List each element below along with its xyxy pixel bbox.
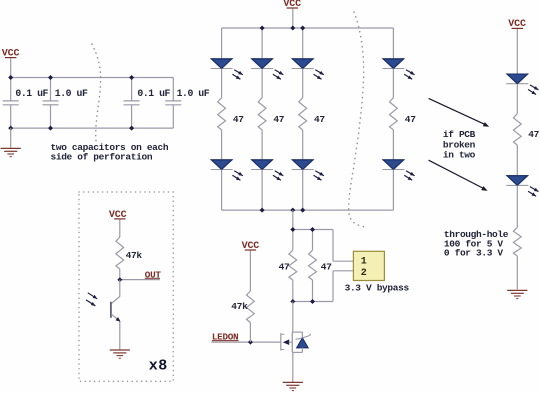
resistor R4 47 [390,98,398,130]
wire capacitor C4 bottom lead [172,105,174,128]
svg-text:0.1 uF: 0.1 uF [137,88,170,99]
note: through-hole resistor value [444,229,509,259]
resistor R3 47 [299,98,307,130]
resistor R5 47 [289,250,297,280]
svg-text:x8: x8 [149,358,168,375]
resistor R6 47 [309,250,317,280]
power flag VCC (LED matrix) [283,0,301,10]
perforation dotted line (matrix) [349,12,367,227]
perforation dotted line (cap bank) [92,44,101,144]
resistor R7 47k [247,291,255,323]
junction resistor-pair bottom right [310,299,315,304]
wire branch 4 bottom [392,170,394,211]
svg-text:47: 47 [321,261,332,272]
value label 47k (R8) [126,250,143,261]
wire LEDON net [211,341,280,343]
LED D10 emission arrows [528,187,538,197]
wire MOSFET source to ground [292,352,294,382]
junction collector node [117,277,122,282]
net label LEDON [212,332,239,343]
wire OUT net [120,279,160,281]
wire matrix top rail [222,27,394,29]
wire capacitor C1 top lead [10,78,12,101]
wire branch 2 upper lead [261,69,263,98]
LED D2B [251,160,273,170]
wire to ground (cap bank) [10,128,12,148]
svg-text:0.1 uF: 0.1 uF [15,88,48,99]
junction on matrix bottom rail [300,208,305,213]
svg-text:47k: 47k [126,250,143,261]
LED D1B emission arrows [232,171,242,181]
LED D4A [382,59,404,69]
net label OUT [145,269,162,280]
svg-text:2: 2 [361,268,367,279]
svg-text:1.0 uF: 1.0 uF [55,88,88,99]
label 3.3 V bypass [345,282,410,293]
wire D10 to R10 [516,185,518,227]
value label 47 (R5) [279,261,290,272]
wire bypass pin2 riser [332,271,334,302]
power flag VCC (capacitor bank) [2,48,20,59]
wire R6 bottom lead [312,280,314,302]
LED D1A emission arrows [232,70,242,80]
wire resistor pair to MOSFET drain [292,302,294,333]
power flag VCC (cell) [109,210,127,221]
wire branch 3 top [302,28,304,59]
MOSFET Q1 gate bar [281,333,284,350]
LED D1A [211,59,233,69]
wire branch 4 top [392,28,394,59]
MOSFET Q1 substrate arrow [283,339,292,345]
power flag VCC (right column) [508,19,526,30]
resistor R10 through-hole [513,227,521,256]
wire capacitor C1 bottom lead [10,105,12,128]
wire branch 2 top [261,28,263,59]
LED D2A [251,59,273,69]
value label 47k (R7) [231,301,248,312]
junction on cap top rail [48,75,53,80]
junction on matrix bottom rail [290,208,295,213]
wire capacitor C4 top lead [172,78,174,101]
value label 1.0 uF (C2) [55,88,88,99]
phototransistor Q2 light arrows [86,293,97,306]
wire R6 top lead [312,230,314,251]
wire branch 2 bottom [261,170,263,211]
value label 0.1 uF (C3) [137,88,170,99]
pin label 2 [361,268,367,279]
phototransistor Q2 collector [111,280,120,304]
LED D4B [382,160,404,170]
junction on matrix top rail [300,26,305,31]
wire R8 to collector node [119,269,121,280]
wire VCC to LED D9 [516,29,518,74]
MOSFET Q1 channel bar [291,332,293,352]
svg-text:VCC: VCC [109,210,127,221]
wire VCC to top rail [10,58,12,77]
svg-text:3.3 V bypass: 3.3 V bypass [345,282,410,293]
annotation arrow lower [429,160,488,191]
junction resistor-pair top left [290,227,295,232]
connector JP1 3.3V bypass (yellow box) [353,251,384,280]
wire R9 to LED D10 [516,145,518,176]
capacitor C1 [3,101,19,105]
value label 0.1 uF (C1) [15,88,48,99]
ground (cell) [110,350,130,358]
value label 47 (R3) [314,114,325,125]
resistor R9 47 [513,114,521,145]
note: if PCB broken in two [443,129,476,160]
ground (MOSFET source) [283,382,303,390]
label x8 [149,358,168,375]
wire branch 3 bottom [302,170,304,211]
wire branch 3 lower lead [302,130,304,160]
wire capacitor C3 top lead [131,78,133,101]
phototransistor Q2 emitter [111,314,120,350]
ground (capacitor bank) [1,148,21,156]
junction on cap top rail [129,75,134,80]
junction on matrix top rail [290,26,295,31]
wire branch 1 bottom [221,170,223,211]
svg-text:47: 47 [273,114,284,125]
capacitor C2 [43,101,59,105]
phototransistor Q2 base bar [110,302,112,318]
wire VCC to R7 [249,251,251,292]
svg-text:1.0 uF: 1.0 uF [177,88,210,99]
resistor R2 47 [258,98,266,130]
wire branch 1 lower lead [221,130,223,160]
wire VCC to matrix top rail [292,9,294,29]
value label 47 (R1) [233,114,244,125]
svg-text:0 for 3.3 V: 0 for 3.3 V [444,248,504,259]
wire capacitor C2 bottom lead [50,105,52,128]
junction on cap top rail [8,75,13,80]
wire VCC to R8 [119,219,121,237]
svg-text:47: 47 [279,261,290,272]
LED D4B emission arrows [404,171,414,181]
junction on cap bottom rail [129,126,134,131]
value label 47 (R2) [273,114,284,125]
wire R10 to ground [516,256,518,289]
wire branch 1 upper lead [221,69,223,98]
svg-text:1: 1 [361,257,367,268]
wire top rail of capacitor bank [11,77,174,79]
junction resistor-pair top right [310,227,315,232]
wire R5 bottom lead [292,280,294,302]
wire capacitor C3 bottom lead [131,105,133,128]
wire bypass pin1 [333,260,353,262]
capacitor C4 [165,101,181,105]
junction resistor-pair bottom left [290,299,295,304]
wire resistor-pair top row [293,229,333,231]
wire branch 4 upper lead [392,69,394,98]
svg-text:if PCB: if PCB [443,129,476,140]
svg-text:47: 47 [528,129,539,140]
wire branch 3 upper lead [302,69,304,98]
wire matrix bottom rail [222,209,394,211]
junction on matrix top rail [260,26,265,31]
power flag VCC (gate pull-up) [242,241,260,252]
svg-text:47k: 47k [231,301,248,312]
pin label 1 [361,257,367,268]
wire D9 to R9 [516,84,518,114]
wire branch 2 lower lead [261,130,263,160]
wire bypass pin2 [333,270,353,272]
wire capacitor C2 top lead [50,78,52,101]
junction on matrix bottom rail [260,208,265,213]
ground (right column) [507,290,527,298]
LED D3A [292,59,314,69]
value label 47 (R4) [405,114,416,125]
LED D9 emission arrows [528,85,538,95]
LED D3A emission arrows [314,70,324,80]
svg-text:in two: in two [443,150,476,161]
LED D3B emission arrows [314,171,324,181]
resistor R8 47k [116,237,124,269]
wire bottom rail of capacitor bank [11,127,174,129]
wire R7 to gate [249,323,251,343]
annotation arrow upper [429,98,490,126]
svg-text:47: 47 [405,114,416,125]
value label 47 (R9) [528,129,539,140]
dotted box (repeated cell) [79,192,173,381]
resistor R1 47 [218,98,226,130]
svg-text:47: 47 [314,114,325,125]
capacitor C3 [124,101,140,105]
LED D4A emission arrows [404,70,414,80]
value label 47 (R6) [321,261,332,272]
LED D9 [506,74,528,84]
wire branch 4 lower lead [392,130,394,160]
wire matrix rail to resistor pair [292,210,294,229]
svg-text:side of perforation: side of perforation [51,152,153,163]
svg-text:47: 47 [233,114,244,125]
wire resistor-pair bottom row [293,301,333,303]
wire R5 top lead [292,230,294,251]
LED D2B emission arrows [273,171,283,181]
junction on cap bottom rail [48,126,53,131]
LED D3B [292,160,314,170]
LED D10 [506,176,528,186]
wire bypass pin1 riser [332,230,334,262]
note: two capacitors on each side of perforation [51,142,169,163]
junction gate pull-up [248,340,253,345]
LED D1B [211,160,233,170]
LED D2A emission arrows [273,70,283,80]
wire branch 1 top [221,28,223,59]
MOSFET Q1 body diode [292,332,310,352]
junction on cap bottom rail [8,126,13,131]
value label 1.0 uF (C4) [177,88,210,99]
